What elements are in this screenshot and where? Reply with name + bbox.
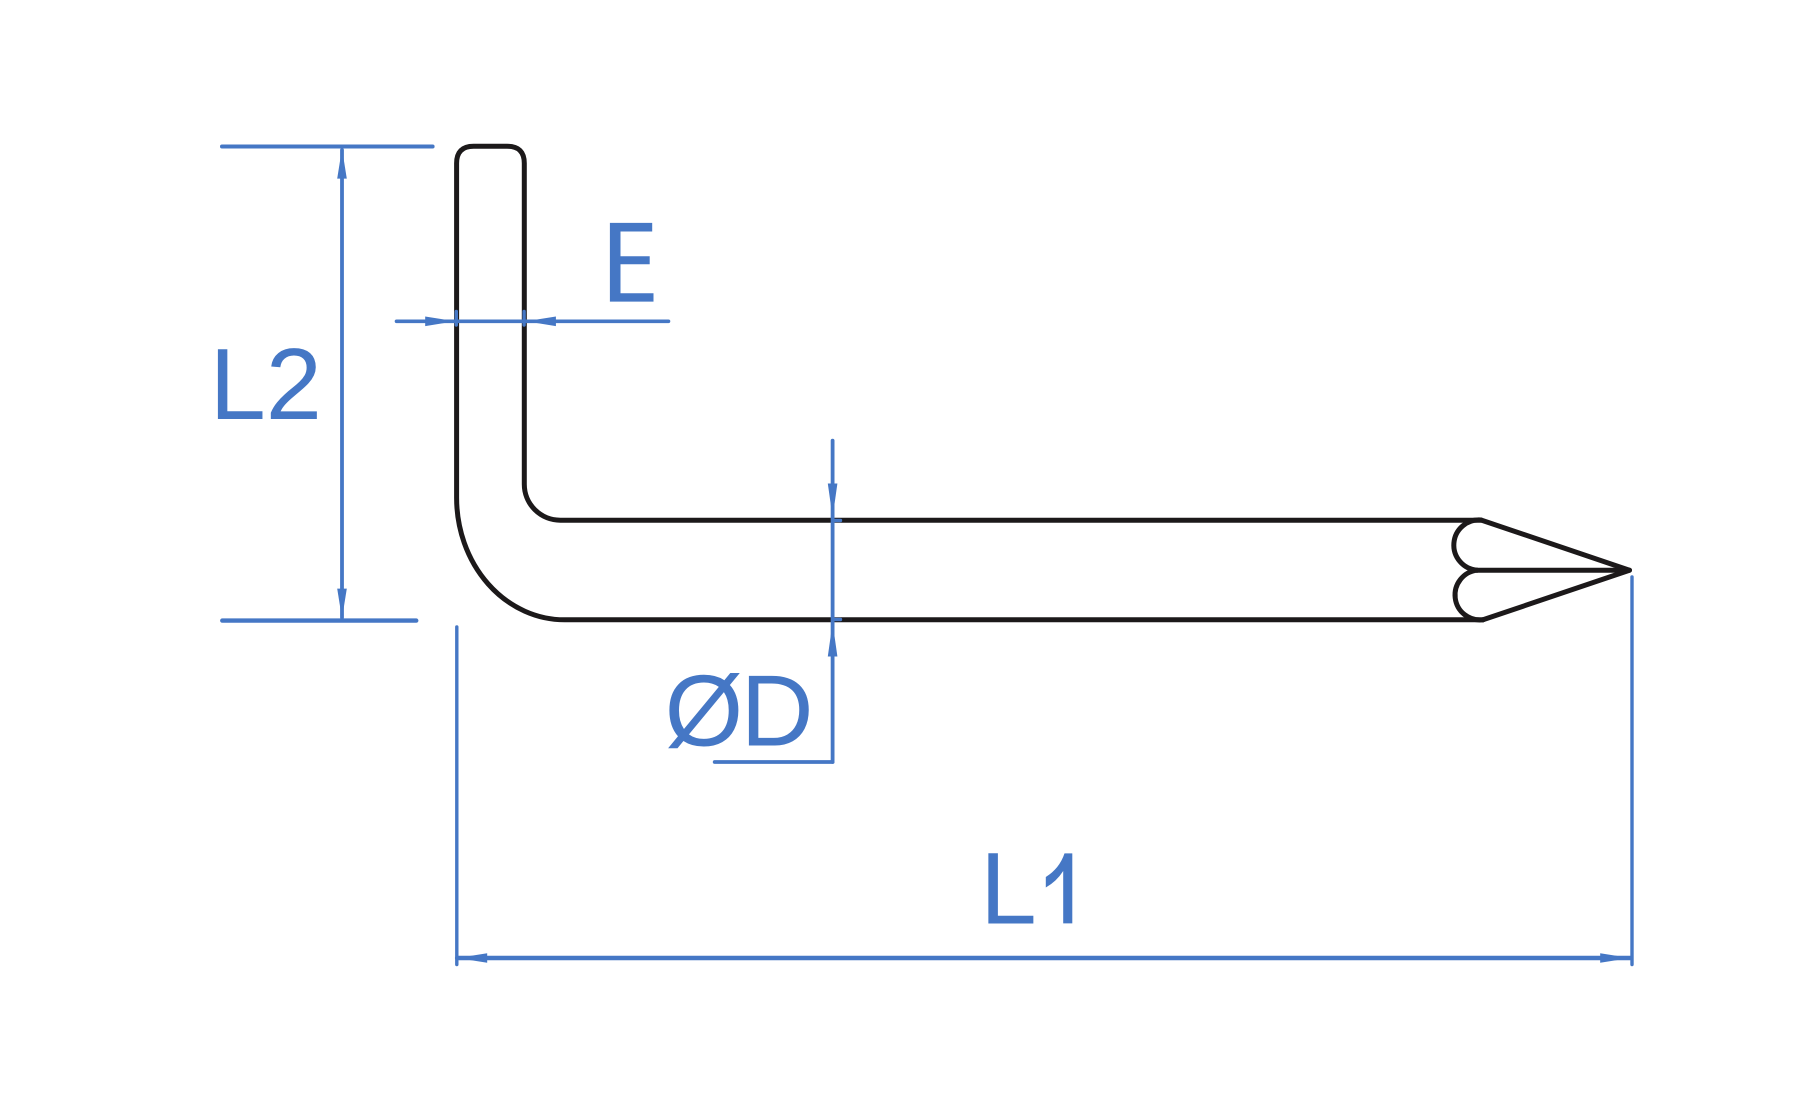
svg-text:ØD: ØD — [665, 655, 812, 767]
svg-text:L2: L2 — [210, 329, 322, 441]
svg-text:L: L — [980, 831, 1037, 945]
